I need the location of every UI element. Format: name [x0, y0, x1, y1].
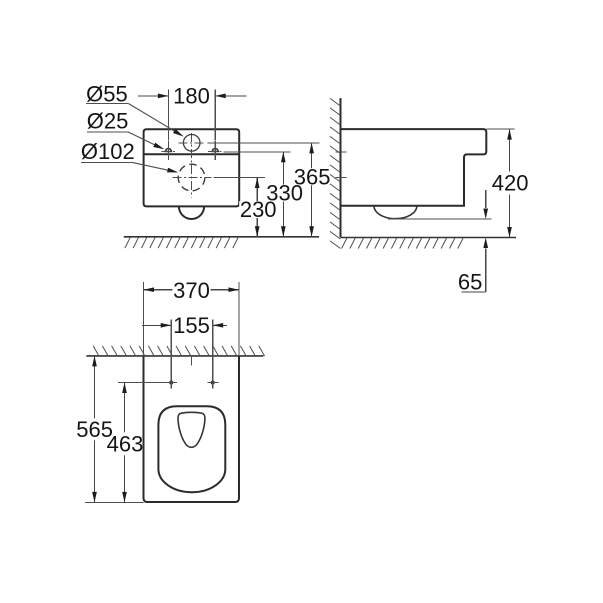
- dim 463 top extension line: [118, 382, 166, 384]
- outlet hole circle O102 (dashed): [178, 164, 205, 191]
- plan bowl inner water outline: [178, 412, 205, 447]
- plan bottom extension line: [85, 501, 144, 503]
- front view toilet body outline: [144, 129, 240, 206]
- dim 370 line: [144, 289, 240, 291]
- svg-text:Ø25: Ø25: [87, 108, 129, 133]
- bump bottom extension line: [388, 218, 492, 220]
- O102 horizontal centerline: [173, 177, 212, 179]
- wall stub lower: [335, 177, 346, 179]
- dim 330 extension line: [224, 151, 291, 153]
- svg-text:65: 65: [458, 269, 482, 294]
- front view vertical centerline: [191, 133, 193, 197]
- dim 180 left arrow+tail: [138, 95, 168, 97]
- dim 370 label: [173, 282, 211, 299]
- dim 155 left extension line: [170, 320, 172, 389]
- O55 horizontal centerline: [179, 142, 206, 144]
- dim 565 line+arrows: [94, 356, 96, 503]
- dim 370 left extension line: [143, 282, 145, 356]
- side floor line: [341, 237, 517, 239]
- dim 565 label: [76, 418, 114, 440]
- svg-text:Ø102: Ø102: [81, 139, 135, 164]
- plan right seat bolt: [211, 380, 215, 384]
- plan view body outline: [144, 356, 240, 502]
- svg-text:230: 230: [240, 197, 277, 222]
- dim 180 left extension line: [167, 89, 169, 140]
- right fixing bolt: [212, 149, 218, 152]
- svg-text:370: 370: [173, 278, 210, 303]
- front floor hatching: [125, 237, 130, 248]
- dim 370 right extension line: [238, 282, 240, 356]
- dim 230 extension line: [213, 177, 265, 179]
- side view toilet profile: [341, 129, 487, 206]
- dim 463 line+arrows: [124, 383, 126, 503]
- plan wall hatching: [93, 346, 99, 356]
- dim 330 line+arrows: [282, 152, 284, 237]
- dim 65 lower line+arrow: [485, 249, 487, 293]
- dim 155 left arrow+tail: [142, 324, 171, 326]
- side view wall hatching: [330, 98, 340, 106]
- left fixing bolt: [165, 149, 171, 152]
- dim 365 label: [293, 168, 331, 185]
- plan bowl outline: [158, 406, 225, 492]
- dim 155 right arrow+tail: [213, 324, 227, 326]
- dim 420 label: [491, 172, 529, 195]
- dim 463 label: [112, 432, 143, 455]
- side outlet bump: [374, 206, 417, 219]
- plan wall line: [86, 355, 263, 357]
- dim 365 extension line: [207, 142, 319, 144]
- dim 330 label: [266, 185, 304, 202]
- svg-text:Ø55: Ø55: [86, 81, 128, 106]
- dim 230 label: [239, 201, 277, 218]
- dim 365 line+arrows: [311, 143, 313, 237]
- svg-text:155: 155: [173, 313, 210, 338]
- side top edge extension: [486, 128, 514, 130]
- front outlet bump: [179, 206, 204, 219]
- svg-text:420: 420: [492, 171, 529, 196]
- svg-text:463: 463: [107, 431, 144, 456]
- side view wall line: [340, 98, 342, 237]
- dim 180 right extension line: [214, 89, 216, 140]
- plan center tick: [190, 356, 192, 366]
- front floor line: [124, 236, 319, 238]
- side floor hatching: [342, 238, 347, 249]
- dim 65 upper stub+arrow: [485, 190, 487, 208]
- dim 420 line+arrows: [509, 129, 511, 237]
- front view cistern rim line: [144, 153, 240, 155]
- svg-text:180: 180: [173, 84, 210, 109]
- dim 155 right extension line: [212, 320, 214, 389]
- plan left seat bolt: [169, 380, 173, 384]
- flush hole circle O55: [183, 135, 200, 152]
- dim 65 leader elbow: [462, 291, 486, 293]
- dim 180 right arrow+tail: [216, 95, 247, 97]
- wall stub upper: [335, 151, 346, 153]
- dim 230 line+arrows: [256, 178, 258, 237]
